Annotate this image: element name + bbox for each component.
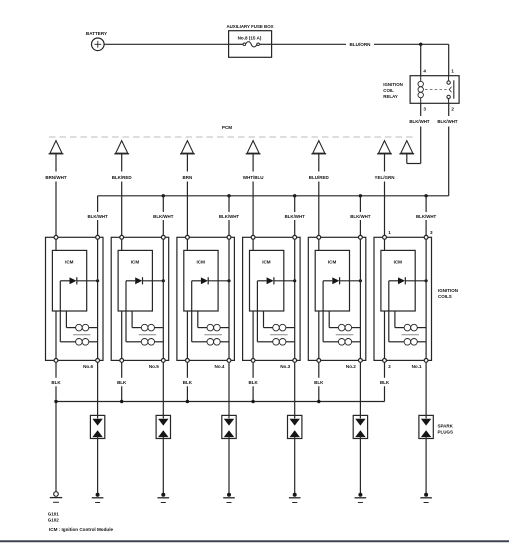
wire top-left terminal to ICM	[186, 239, 188, 250]
svg-text:BLK/WHT: BLK/WHT	[416, 214, 437, 219]
terminal bottom-left	[251, 359, 255, 363]
label SPARK PLUGS	[438, 424, 454, 435]
diode D	[192, 277, 229, 284]
wire right terminal supply line	[97, 239, 99, 358]
spark plug No.2	[353, 415, 367, 438]
wire to relay pin 4	[420, 44, 422, 75]
secondary winding	[207, 339, 229, 346]
svg-text:ICM: ICM	[196, 260, 205, 265]
wire top-left terminal to ICM	[384, 239, 386, 250]
svg-text:BLK: BLK	[117, 380, 127, 385]
ignition coil No.1	[374, 235, 432, 362]
coil outer box	[308, 237, 366, 360]
terminal bottom-right	[227, 359, 231, 363]
wire ICM to bottom-left terminal	[186, 311, 188, 359]
terminal bottom-left	[54, 359, 58, 363]
terminal top-left	[383, 235, 387, 239]
primary winding	[338, 324, 360, 331]
junction BLK/WHT bus to coil No.1	[424, 194, 427, 197]
ground spark plug No.3	[289, 493, 301, 503]
ignition coil No.6	[46, 235, 104, 362]
wire ICM output to primary winding	[395, 311, 404, 328]
coil outer box	[111, 237, 169, 360]
svg-text:BLK/WHT: BLK/WHT	[437, 119, 458, 124]
wire relay pin 3 (BLK/WHT) to PCM connector	[407, 103, 421, 163]
svg-text:SPARK: SPARK	[438, 424, 454, 429]
wire BLK/WHT drop to coil No.4	[228, 196, 230, 236]
svg-text:BLK/WHT: BLK/WHT	[153, 214, 174, 219]
svg-text:BRN: BRN	[183, 175, 193, 180]
wire top-left terminal to ICM	[252, 239, 254, 250]
ignition coil No.5	[111, 235, 169, 362]
ground spark plug No.1	[420, 493, 432, 503]
svg-text:1: 1	[388, 230, 391, 235]
PCM connector triangle (YEL/GRN)	[377, 141, 392, 154]
wire right terminal supply line	[359, 239, 361, 358]
svg-text:No.6: No.6	[83, 364, 93, 369]
wire BLK/WHT drop to coil No.5	[162, 196, 164, 236]
svg-text:BLK/RED: BLK/RED	[112, 175, 133, 180]
svg-text:AUXILIARY FUSE BOX: AUXILIARY FUSE BOX	[226, 24, 273, 29]
secondary winding	[141, 339, 163, 346]
diode D	[323, 277, 360, 284]
junction diode to supply line	[425, 279, 428, 282]
wire BLK ground coil No.3	[252, 362, 254, 401]
ground spark plug No.2	[355, 493, 367, 503]
PCM connector triangle (BRN/WHT)	[49, 141, 64, 154]
svg-text:ICM: ICM	[131, 260, 140, 265]
bus corner drop to coil No.6	[97, 196, 99, 236]
terminal bottom-left	[186, 359, 190, 363]
junction BLK/WHT bus to coil No.4	[227, 194, 230, 197]
wire diode left leg down	[389, 281, 404, 342]
wire top-left terminal to ICM	[55, 239, 57, 250]
label IGNITION COILS	[438, 288, 458, 299]
terminal top-left	[251, 235, 255, 239]
junction diode to supply line	[359, 279, 362, 282]
diode D	[257, 277, 294, 284]
PCM connector triangle (relay BLK/WHT)	[399, 141, 414, 154]
wire diode left leg down	[323, 281, 338, 342]
wire BRN to coil No.4	[186, 154, 188, 235]
wire BLK ground coil No.5	[121, 362, 123, 401]
primary winding	[207, 324, 229, 331]
secondary winding	[76, 339, 98, 346]
wire diode left leg down	[60, 281, 75, 342]
wire BRN/WHT to coil No.6	[55, 154, 57, 235]
wire ICM to bottom-left terminal	[318, 311, 320, 359]
junction diode to supply line	[293, 279, 296, 282]
wire spark plug No.4 to ground	[228, 437, 230, 493]
svg-text:G102: G102	[48, 518, 60, 523]
ignition coil No.4	[177, 235, 235, 362]
svg-text:BLU/RED: BLU/RED	[309, 175, 330, 180]
spark plug No.4	[222, 415, 236, 438]
transformer core	[402, 334, 420, 336]
junction diode to supply line	[162, 279, 165, 282]
PCM connector triangle (BLU/RED)	[311, 141, 326, 154]
secondary winding	[273, 339, 295, 346]
wire spark plug No.3 to ground	[294, 437, 296, 493]
diode D	[389, 277, 426, 284]
ground spark plug No.6	[92, 493, 104, 503]
ICM box	[315, 250, 349, 311]
wire ICM output to primary winding	[329, 311, 338, 328]
svg-text:BLK/WHT: BLK/WHT	[350, 214, 371, 219]
ignition coil No.3	[243, 235, 301, 362]
spark plug No.5	[156, 415, 170, 438]
wire BLK ground coil No.1	[384, 362, 386, 401]
diode D	[126, 277, 163, 284]
ICM box	[52, 250, 86, 311]
coil outer box	[243, 237, 301, 360]
primary winding	[141, 324, 163, 331]
wire BLU/ORN to relay pins	[374, 43, 449, 45]
wire right terminal supply line	[425, 239, 427, 358]
wire battery to fuse box	[104, 43, 229, 45]
ICM box	[381, 250, 415, 311]
wire coil No.3 to spark plug	[294, 362, 296, 418]
svg-text:No.1: No.1	[412, 364, 422, 369]
ICM box	[184, 250, 218, 311]
wire BLK ground coil No.4	[186, 362, 188, 401]
svg-text:BATTERY: BATTERY	[86, 31, 107, 36]
svg-text:No.8 (15 A): No.8 (15 A)	[238, 36, 262, 41]
terminal bottom-right	[359, 359, 363, 363]
terminal bottom-right	[424, 359, 428, 363]
junction ground bus No.6	[54, 400, 57, 403]
wire right terminal supply line	[162, 239, 164, 358]
spark plug No.6	[90, 415, 104, 438]
coil outer box	[374, 237, 432, 360]
terminal bottom-right	[161, 359, 165, 363]
svg-text:BLU/ORN: BLU/ORN	[350, 42, 372, 47]
terminal bottom-left	[383, 359, 387, 363]
ignition coil No.2	[308, 235, 366, 362]
wire BLK/WHT drop to coil No.2	[359, 196, 361, 236]
svg-text:2: 2	[388, 364, 391, 369]
label IGNITION COIL RELAY	[383, 82, 403, 99]
svg-text:COIL: COIL	[383, 88, 394, 93]
coil outer box	[177, 237, 235, 360]
svg-text:BLK/WHT: BLK/WHT	[409, 119, 430, 124]
wire BLK/WHT drop to coil No.3	[294, 196, 296, 236]
wire BLU/RED to coil No.2	[318, 154, 320, 235]
diode D	[60, 277, 97, 284]
spark plug No.1	[419, 415, 433, 438]
terminal top-left	[317, 235, 321, 239]
wire coil No.1 to spark plug	[425, 362, 427, 418]
coil outer box	[46, 237, 104, 360]
secondary winding	[404, 339, 426, 346]
transformer core	[139, 334, 157, 336]
wire BLK ground coil No.2	[318, 362, 320, 401]
junction at relay pin 4 branch	[419, 43, 422, 46]
PCM boundary (dashed)	[49, 136, 414, 138]
svg-text:BRN/WHT: BRN/WHT	[45, 175, 66, 180]
PCM connector triangle (BLK/RED)	[114, 141, 129, 154]
junction BLK/WHT bus to coil No.3	[293, 194, 296, 197]
ground bus	[56, 401, 385, 403]
auxiliary fuse box	[229, 31, 272, 58]
junction ground bus No.2	[317, 400, 320, 403]
wire ICM to bottom-left terminal	[55, 311, 57, 359]
svg-text:ICM: ICM	[262, 260, 271, 265]
wire diode left leg down	[192, 281, 207, 342]
wire ICM output to primary winding	[198, 311, 207, 328]
terminal top-right	[161, 235, 165, 239]
terminal top-right	[359, 235, 363, 239]
svg-text:YEL/GRN: YEL/GRN	[374, 175, 394, 180]
svg-text:No.3: No.3	[280, 364, 290, 369]
wire coil No.6 to spark plug	[97, 362, 99, 418]
svg-text:No.4: No.4	[215, 364, 225, 369]
wire right terminal supply line	[228, 239, 230, 358]
wire right terminal supply line	[294, 239, 296, 358]
svg-text:2: 2	[451, 106, 454, 111]
terminal bottom-left	[317, 359, 321, 363]
wire ground bus to G101/G102	[55, 402, 57, 492]
ignition coil relay U1	[410, 76, 459, 104]
terminal bottom-left	[120, 359, 124, 363]
transformer core	[204, 334, 222, 336]
wire spark plug No.6 to ground	[97, 437, 99, 493]
svg-text:IGNITION: IGNITION	[438, 288, 458, 293]
secondary winding	[338, 339, 360, 346]
terminal top-right	[227, 235, 231, 239]
primary winding	[273, 324, 295, 331]
transformer core	[73, 334, 91, 336]
BLK/WHT supply bus	[98, 195, 449, 197]
svg-text:No.5: No.5	[149, 364, 159, 369]
svg-text:ICM: ICM	[328, 260, 337, 265]
wire ICM to bottom-left terminal	[384, 311, 386, 359]
fuse No.8 (15 A)	[229, 36, 272, 47]
ground G101/G102	[50, 492, 62, 503]
junction diode to supply line	[96, 279, 99, 282]
junction ground bus No.3	[251, 400, 254, 403]
terminal top-right	[96, 235, 100, 239]
svg-text:RELAY: RELAY	[383, 94, 398, 99]
svg-text:ICM : Ignition Control Module: ICM : Ignition Control Module	[49, 527, 113, 532]
terminal top-right	[424, 235, 428, 239]
svg-text:BLK/WHT: BLK/WHT	[219, 214, 240, 219]
svg-text:BLK: BLK	[248, 380, 258, 385]
wire relay pin 2 (BLK/WHT) to coil supply bus	[448, 103, 450, 196]
battery	[92, 38, 105, 51]
wire spark plug No.1 to ground	[425, 437, 427, 493]
wire to relay pin 1	[448, 44, 450, 75]
wire ICM to bottom-left terminal	[121, 311, 123, 359]
wire coil No.4 to spark plug	[228, 362, 230, 418]
wire diode left leg down	[126, 281, 141, 342]
terminal top-right	[293, 235, 297, 239]
junction ground bus No.4	[186, 400, 189, 403]
wire WHT/BLU to coil No.3	[252, 154, 254, 235]
wire ICM output to primary winding	[132, 311, 141, 328]
svg-text:No.2: No.2	[346, 364, 356, 369]
wire ICM output to primary winding	[264, 311, 273, 328]
terminal top-left	[120, 235, 124, 239]
junction BLK/WHT bus to coil No.2	[359, 194, 362, 197]
svg-text:WHT/BLU: WHT/BLU	[243, 175, 264, 180]
svg-text:4: 4	[423, 69, 426, 74]
terminal top-left	[54, 235, 58, 239]
junction ground bus No.5	[120, 400, 123, 403]
wire diode left leg down	[257, 281, 272, 342]
transformer core	[270, 334, 288, 336]
wire BLK ground coil No.6	[55, 362, 57, 401]
ICM box	[118, 250, 152, 311]
svg-text:IGNITION: IGNITION	[383, 82, 403, 87]
wire top-left terminal to ICM	[121, 239, 123, 250]
terminal bottom-right	[293, 359, 297, 363]
wire top-left terminal to ICM	[318, 239, 320, 250]
svg-text:BLK: BLK	[314, 380, 324, 385]
transformer core	[336, 334, 354, 336]
junction diode to supply line	[227, 279, 230, 282]
ground spark plug No.4	[223, 493, 235, 503]
svg-text:3: 3	[423, 106, 426, 111]
svg-text:ICM: ICM	[65, 260, 74, 265]
primary winding	[404, 324, 426, 331]
svg-text:COILS: COILS	[438, 294, 452, 299]
svg-text:1: 1	[451, 69, 454, 74]
wire BLK/WHT drop to coil No.1	[425, 196, 427, 236]
wire BLK/RED to coil No.5	[121, 154, 123, 235]
wire YEL/GRN to coil No.1	[384, 154, 386, 235]
svg-text:BLK: BLK	[380, 380, 390, 385]
svg-text:G101: G101	[48, 512, 60, 517]
PCM connector triangle (WHT/BLU)	[246, 141, 261, 154]
wire ICM output to primary winding	[66, 311, 75, 328]
wire coil No.2 to spark plug	[359, 362, 361, 418]
svg-text:BLK: BLK	[51, 380, 61, 385]
ICM box	[250, 250, 284, 311]
svg-text:ICM: ICM	[394, 260, 403, 265]
junction BLK/WHT bus to coil No.5	[162, 194, 165, 197]
bottom border bar	[0, 540, 509, 542]
wire ICM to bottom-left terminal	[252, 311, 254, 359]
wire spark plug No.2 to ground	[359, 437, 361, 493]
wire coil No.5 to spark plug	[162, 362, 164, 418]
svg-text:PLUGS: PLUGS	[438, 430, 454, 435]
svg-text:PCM: PCM	[222, 125, 232, 130]
ground spark plug No.5	[158, 493, 170, 503]
svg-text:BLK/WHT: BLK/WHT	[87, 214, 108, 219]
primary winding	[76, 324, 98, 331]
terminal top-left	[186, 235, 190, 239]
spark plug No.3	[288, 415, 302, 438]
PCM connector triangle (BRN)	[180, 141, 195, 154]
wire spark plug No.5 to ground	[162, 437, 164, 493]
wire fuse box to relay (BLU/ORN)	[272, 43, 346, 45]
terminal bottom-right	[96, 359, 100, 363]
svg-text:3: 3	[430, 230, 433, 235]
svg-text:BLK/WHT: BLK/WHT	[285, 214, 306, 219]
svg-text:BLK: BLK	[183, 380, 193, 385]
